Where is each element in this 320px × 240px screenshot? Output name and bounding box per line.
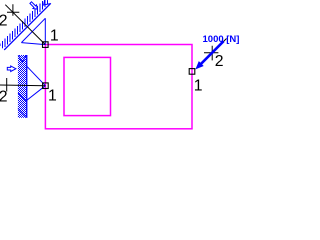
band end V chevron: [44, 0, 51, 5]
support hatched band (vertical): [18, 55, 27, 118]
node 1 box (top-left): [43, 42, 49, 48]
band top V chevron: [18, 55, 26, 62]
support base line connecting leg tips: [21, 18, 45, 42]
svg-text:1: 1: [50, 28, 59, 45]
star marker 2 (top-left): [7, 4, 19, 16]
leader line star2 to node1: [5, 5, 45, 45]
svg-text:1000 [N]: 1000 [N]: [203, 34, 240, 45]
band edge line: [4, 3, 51, 50]
svg-text:2: 2: [0, 88, 8, 105]
star marker 2 (right): [204, 46, 218, 61]
support legs to node 1: [21, 18, 45, 44]
band edge line: [26, 55, 27, 118]
svg-text:1: 1: [48, 88, 57, 105]
leader line star to node (under arrow): [215, 39, 227, 51]
band hatch diagonals: [18, 93, 27, 117]
support direction open arrow (right): [7, 66, 16, 72]
support legs to node 1 (mid-left): [27, 66, 46, 100]
node 1 box (right): [189, 69, 195, 75]
inner magenta rectangle (hole): [64, 57, 111, 115]
support direction open arrow (down-right): [30, 2, 37, 9]
force arrow 1000 N: [195, 40, 224, 69]
outer magenta rectangle (geometry outline): [45, 45, 192, 129]
node 1 box (mid-left): [43, 83, 49, 89]
leader line star to node (horizontal): [0, 84, 45, 87]
svg-text:2: 2: [0, 12, 8, 29]
star marker 2 (mid-left): [6, 78, 8, 92]
svg-text:1: 1: [194, 77, 203, 94]
svg-text:2: 2: [215, 53, 224, 70]
